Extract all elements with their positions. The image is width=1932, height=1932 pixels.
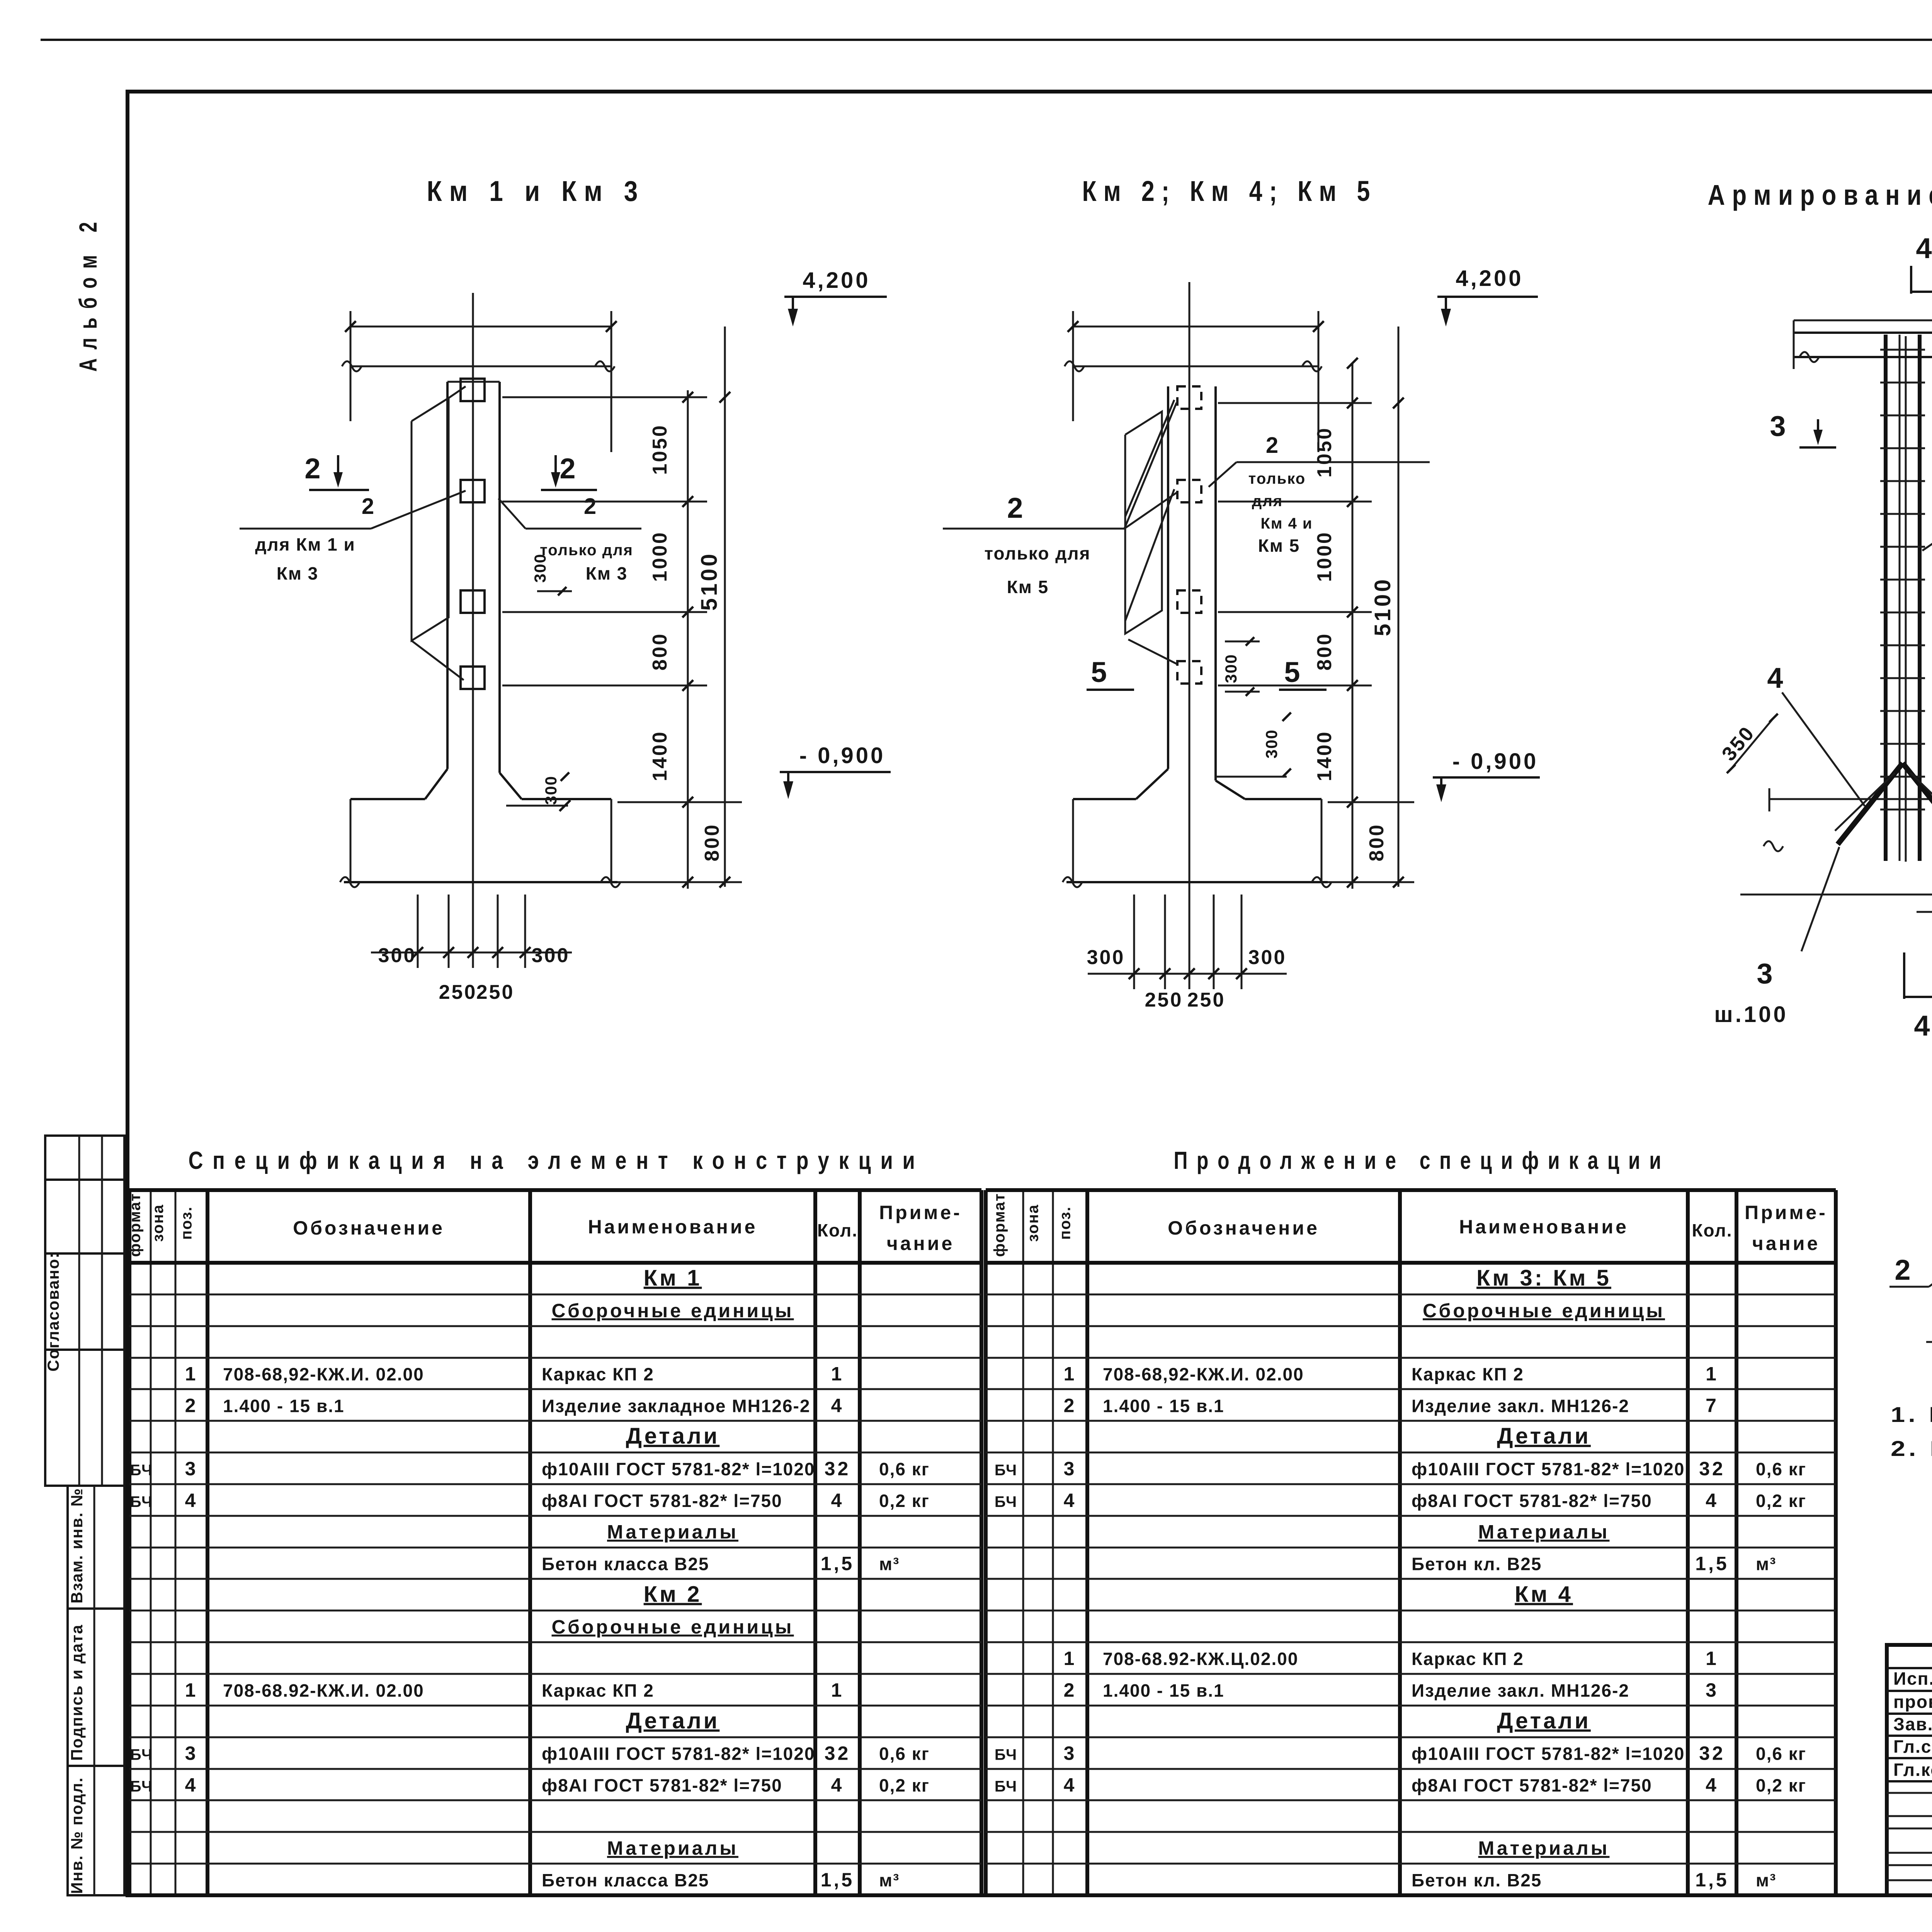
svg-text:4: 4 — [1064, 1490, 1077, 1511]
svg-text:1000: 1000 — [649, 531, 671, 582]
drawing2 slab line — [1073, 366, 1318, 367]
svg-text:БЧ: БЧ — [130, 1747, 153, 1764]
svg-text:БЧ: БЧ — [130, 1462, 153, 1479]
svg-text:4,200: 4,200 — [1456, 266, 1523, 291]
svg-text:1,5: 1,5 — [821, 1869, 855, 1891]
svg-text:Наименование: Наименование — [1459, 1216, 1629, 1238]
svg-text:Изделие закладное МН126-2: Изделие закладное МН126-2 — [542, 1396, 810, 1416]
svg-text:поз.: поз. — [1057, 1206, 1074, 1240]
svg-text:1050: 1050 — [649, 424, 671, 475]
svg-text:Материалы: Материалы — [607, 1837, 738, 1859]
svg-text:Км 1: Км 1 — [644, 1265, 702, 1291]
svg-text:БЧ: БЧ — [995, 1747, 1017, 1764]
svg-text:Согласовано:: Согласовано: — [44, 1252, 62, 1371]
svg-text:БЧ: БЧ — [130, 1778, 153, 1795]
drawing2 column centerline — [1189, 282, 1190, 904]
svg-text:0,6 кг: 0,6 кг — [879, 1744, 930, 1764]
svg-text:3: 3 — [185, 1458, 198, 1480]
svg-text:0,6 кг: 0,6 кг — [1756, 1459, 1806, 1479]
svg-text:350: 350 — [1718, 722, 1759, 765]
svg-text:ф8АI ГОСТ 5781-82* l=750: ф8АI ГОСТ 5781-82* l=750 — [1412, 1491, 1652, 1511]
drawing2 dimension chain — [1352, 363, 1354, 889]
svg-text:Наименование: Наименование — [588, 1216, 758, 1238]
svg-text:800: 800 — [701, 823, 723, 862]
svg-text:Спецификация на элемент кон: Спецификация на элемент конструкции — [189, 1146, 925, 1174]
staff/signature table — [1887, 1645, 1932, 1895]
svg-text:пров.: пров. — [1893, 1692, 1932, 1712]
drawing1 right extension line — [611, 311, 612, 452]
svg-text:- 0,900: - 0,900 — [799, 743, 886, 768]
drawing2 left extension — [1072, 311, 1074, 421]
approval stamp group (Согласовано) — [45, 1136, 124, 1486]
svg-text:БЧ: БЧ — [995, 1462, 1017, 1479]
svg-text:Км 4 и: Км 4 и — [1260, 515, 1313, 532]
svg-text:Детали: Детали — [626, 1708, 720, 1733]
svg-text:для Км 1 и: для Км 1 и — [255, 534, 355, 554]
svg-text:300: 300 — [542, 776, 560, 805]
svg-text:2: 2 — [1895, 1254, 1919, 1286]
svg-text:4,200: 4,200 — [803, 268, 870, 293]
svg-text:2: 2 — [1266, 433, 1281, 458]
svg-text:зона: зона — [1025, 1204, 1042, 1242]
svg-text:0,2 кг: 0,2 кг — [1756, 1491, 1806, 1511]
drawing1 total dim 5100 — [724, 327, 726, 887]
drawing1 slab line — [350, 366, 611, 367]
svg-text:Км 3: Км 3 — [277, 563, 318, 583]
svg-text:1: 1 — [831, 1363, 844, 1384]
svg-text:1,5: 1,5 — [1695, 1869, 1729, 1891]
svg-text:800: 800 — [1366, 823, 1388, 862]
drawing2 footing — [1136, 769, 1168, 799]
svg-text:Бетон класса В25: Бетон класса В25 — [542, 1554, 709, 1574]
svg-text:0,2 кг: 0,2 кг — [879, 1491, 930, 1511]
svg-text:БЧ: БЧ — [995, 1493, 1017, 1510]
svg-text:3: 3 — [185, 1743, 198, 1764]
svg-text:Каркас КП 2: Каркас КП 2 — [1412, 1649, 1524, 1669]
svg-text:Детали: Детали — [1497, 1423, 1591, 1449]
svg-text:ф8АI ГОСТ 5781-82* l=750: ф8АI ГОСТ 5781-82* l=750 — [542, 1776, 782, 1796]
leader to plate4 — [412, 641, 464, 680]
svg-text:32: 32 — [1699, 1458, 1725, 1480]
drawing2 dashed plate 3 — [1177, 590, 1201, 613]
svg-text:2: 2 — [362, 494, 376, 519]
svg-text:708-68.92-КЖ.Ц.02.00: 708-68.92-КЖ.Ц.02.00 — [1103, 1649, 1298, 1669]
drawing2 bottom dimensions — [1133, 895, 1135, 989]
drawing1 column centerline — [472, 293, 474, 904]
drawing2 cage outline — [1125, 412, 1162, 634]
top slab (left) — [1794, 332, 1932, 334]
svg-text:1.400 - 15 в.1: 1.400 - 15 в.1 — [223, 1396, 345, 1416]
stamp group (Взам.инв №/Подпись и дата/Инв № подл.) — [68, 1486, 124, 1895]
svg-text:Сборочные единицы: Сборочные единицы — [552, 1616, 794, 1638]
drawing2 column body — [1167, 386, 1169, 769]
svg-text:Сборочные единицы: Сборочные единицы — [552, 1300, 794, 1321]
svg-text:Исп.: Исп. — [1893, 1668, 1932, 1689]
svg-text:250: 250 — [439, 981, 477, 1003]
drawing1 embedded plate 2 — [461, 480, 485, 502]
svg-text:1: 1 — [1064, 1363, 1077, 1384]
dim 350 (left) — [1731, 718, 1774, 769]
svg-text:4: 4 — [831, 1395, 844, 1416]
svg-text:чание: чание — [887, 1233, 955, 1254]
svg-text:ф10АIII ГОСТ 5781-82* l=1020: ф10АIII ГОСТ 5781-82* l=1020 — [542, 1744, 815, 1764]
svg-text:2: 2 — [304, 452, 329, 485]
drawing1 embedded plate 1 — [461, 379, 485, 401]
svg-text:Детали: Детали — [1497, 1708, 1591, 1733]
svg-text:Каркас КП 2: Каркас КП 2 — [542, 1680, 654, 1701]
page border top — [41, 39, 1932, 41]
svg-text:1400: 1400 — [1313, 730, 1336, 781]
drawing1 footing 300 dim — [506, 805, 568, 807]
drawing1 dimension chain — [687, 390, 689, 889]
svg-text:формат: формат — [991, 1193, 1008, 1257]
svg-text:1: 1 — [185, 1363, 198, 1384]
svg-text:Обозначение: Обозначение — [293, 1217, 445, 1239]
svg-text:Кол.: Кол. — [817, 1220, 858, 1240]
svg-text:Гл.кон: Гл.кон — [1893, 1760, 1932, 1780]
svg-text:4: 4 — [1706, 1490, 1719, 1511]
svg-text:250: 250 — [1187, 989, 1226, 1011]
svg-text:Км 4: Км 4 — [1515, 1582, 1573, 1607]
svg-text:1. Ведомость расхода стали: 1. Ведомость расхода стали см. лист 19. — [1891, 1402, 1932, 1427]
svg-text:1,5: 1,5 — [821, 1553, 855, 1575]
svg-text:300: 300 — [532, 944, 570, 967]
drawing2 dashed plate 4 — [1177, 661, 1201, 684]
svg-text:4: 4 — [831, 1490, 844, 1511]
svg-text:Изделие закл. МН126-2: Изделие закл. МН126-2 — [1412, 1680, 1629, 1701]
svg-text:300: 300 — [1248, 946, 1287, 969]
svg-text:1000: 1000 — [1313, 531, 1336, 582]
drawing1 cage outline — [412, 398, 449, 641]
svg-text:чание: чание — [1752, 1233, 1820, 1254]
svg-text:Материалы: Материалы — [607, 1521, 738, 1543]
svg-text:300: 300 — [1222, 654, 1240, 683]
svg-text:2: 2 — [185, 1395, 198, 1416]
svg-text:7: 7 — [1706, 1395, 1719, 1416]
svg-text:4: 4 — [185, 1774, 198, 1796]
svg-text:1: 1 — [1706, 1648, 1719, 1669]
svg-text:Сборочные единицы: Сборочные единицы — [1423, 1300, 1665, 1321]
svg-text:708-68,92-КЖ.И. 02.00: 708-68,92-КЖ.И. 02.00 — [1103, 1364, 1304, 1384]
svg-text:Инв. № подл.: Инв. № подл. — [68, 1777, 86, 1894]
svg-text:3: 3 — [1064, 1743, 1077, 1764]
svg-text:ф8АI ГОСТ 5781-82* l=750: ф8АI ГОСТ 5781-82* l=750 — [1412, 1776, 1652, 1796]
svg-text:2. Рабочие швы при бетониров: 2. Рабочие швы при бетонировании колонн — [1891, 1436, 1932, 1461]
svg-text:формат: формат — [127, 1193, 144, 1257]
svg-text:Продолжение спецификации: Продолжение спецификации — [1174, 1146, 1670, 1174]
svg-text:Каркас КП 2: Каркас КП 2 — [542, 1364, 654, 1384]
svg-text:800: 800 — [649, 633, 671, 671]
drawing1 left extension line — [350, 311, 352, 421]
svg-text:БЧ: БЧ — [130, 1493, 153, 1510]
svg-text:Изделие закл. МН126-2: Изделие закл. МН126-2 — [1412, 1396, 1629, 1416]
svg-text:Бетон кл. В25: Бетон кл. В25 — [1412, 1554, 1542, 1574]
svg-text:Каркас КП 2: Каркас КП 2 — [1412, 1364, 1524, 1384]
drawing1 embedded plate 4 — [461, 667, 485, 689]
svg-text:только: только — [1248, 470, 1306, 487]
svg-text:300: 300 — [1262, 729, 1281, 759]
svg-text:Зав.гр: Зав.гр — [1893, 1714, 1932, 1734]
svg-text:2: 2 — [1064, 1395, 1077, 1416]
svg-text:2: 2 — [584, 494, 599, 519]
svg-text:Приме-: Приме- — [879, 1202, 962, 1223]
svg-text:поз.: поз. — [178, 1206, 195, 1240]
svg-text:4: 4 — [1914, 1010, 1932, 1042]
drawing2 dashed plate 2 — [1177, 480, 1201, 502]
svg-text:ф8АI ГОСТ 5781-82* l=750: ф8АI ГОСТ 5781-82* l=750 — [542, 1491, 782, 1511]
svg-text:Материалы: Материалы — [1478, 1521, 1610, 1543]
svg-text:2: 2 — [560, 452, 584, 485]
svg-text:зона: зона — [150, 1204, 167, 1242]
drawing1 embedded plate 3 — [461, 590, 485, 613]
svg-text:3: 3 — [1770, 410, 1794, 442]
svg-text:только для: только для — [985, 543, 1091, 563]
svg-text:Альбом 2: Альбом 2 — [74, 213, 102, 372]
svg-text:- 0,900: - 0,900 — [1452, 749, 1539, 774]
svg-text:м³: м³ — [879, 1870, 900, 1890]
svg-text:4: 4 — [831, 1774, 844, 1796]
svg-text:1: 1 — [185, 1679, 198, 1701]
drawing2 dashed plate 1 — [1177, 386, 1201, 409]
svg-text:0,6 кг: 0,6 кг — [879, 1459, 930, 1479]
svg-text:708-68,92-КЖ.И. 02.00: 708-68,92-КЖ.И. 02.00 — [223, 1364, 424, 1384]
svg-text:300: 300 — [378, 944, 417, 967]
drawing2 right extension — [1318, 311, 1320, 452]
svg-text:Бетон кл. В25: Бетон кл. В25 — [1412, 1870, 1542, 1890]
drawing1 footing — [425, 769, 447, 799]
svg-text:Км 5: Км 5 — [1007, 577, 1049, 597]
svg-text:Подпись и дата: Подпись и дата — [68, 1624, 86, 1760]
svg-text:Приме-: Приме- — [1745, 1202, 1828, 1223]
svg-text:3: 3 — [1706, 1679, 1719, 1701]
svg-text:5: 5 — [1284, 656, 1308, 688]
svg-text:32: 32 — [825, 1743, 851, 1764]
svg-text:4: 4 — [1916, 232, 1932, 264]
svg-text:2: 2 — [1064, 1679, 1077, 1701]
svg-text:Км 2: Км 2 — [644, 1582, 702, 1607]
svg-text:1.400 - 15 в.1: 1.400 - 15 в.1 — [1103, 1680, 1225, 1701]
svg-text:3: 3 — [1757, 957, 1781, 990]
drawing2 top dim line — [1073, 326, 1318, 328]
svg-text:Км 3: Км 5: Км 3: Км 5 — [1476, 1265, 1611, 1291]
svg-text:1.400 - 15 в.1: 1.400 - 15 в.1 — [1103, 1396, 1225, 1416]
svg-text:1: 1 — [1706, 1363, 1719, 1384]
svg-text:1050: 1050 — [1313, 427, 1336, 478]
svg-text:ф10АIII ГОСТ 5781-82* l=1020: ф10АIII ГОСТ 5781-82* l=1020 — [1412, 1744, 1685, 1764]
svg-text:32: 32 — [825, 1458, 851, 1480]
svg-text:м³: м³ — [1756, 1870, 1776, 1890]
drawing1 bottom dimensions — [417, 895, 419, 968]
svg-text:1: 1 — [1064, 1648, 1077, 1669]
svg-text:Материалы: Материалы — [1478, 1837, 1610, 1859]
svg-text:Кол.: Кол. — [1692, 1220, 1732, 1240]
svg-text:4: 4 — [1767, 662, 1791, 694]
svg-text:1,5: 1,5 — [1695, 1553, 1729, 1575]
svg-text:ф10АIII ГОСТ 5781-82* l=1020: ф10АIII ГОСТ 5781-82* l=1020 — [1412, 1459, 1685, 1479]
svg-text:4: 4 — [1706, 1774, 1719, 1796]
svg-text:5100: 5100 — [1370, 577, 1395, 636]
svg-text:250: 250 — [476, 981, 515, 1003]
svg-text:Детали: Детали — [626, 1423, 720, 1449]
svg-text:300: 300 — [1087, 946, 1125, 969]
svg-text:Бетон класса В25: Бетон класса В25 — [542, 1870, 709, 1890]
section mark 4 bottom — [1903, 952, 1905, 999]
svg-text:Км 5: Км 5 — [1258, 536, 1300, 556]
svg-text:Км 3: Км 3 — [586, 563, 628, 583]
leader to plate1 — [449, 386, 466, 398]
svg-text:Км 1 и Км 3: Км 1 и Км 3 — [427, 175, 645, 207]
drawing1 top dimension line — [350, 326, 611, 328]
svg-text:800: 800 — [1313, 633, 1336, 671]
svg-text:Взам. инв. №: Взам. инв. № — [68, 1488, 86, 1604]
svg-text:м³: м³ — [1756, 1554, 1776, 1574]
svg-text:0,6 кг: 0,6 кг — [1756, 1744, 1806, 1764]
footing anchors (left) — [1769, 798, 1932, 800]
svg-text:4: 4 — [1064, 1774, 1077, 1796]
svg-text:БЧ: БЧ — [995, 1778, 1017, 1795]
svg-text:2: 2 — [1007, 492, 1031, 524]
svg-text:ф10АIII ГОСТ 5781-82* l=1020: ф10АIII ГОСТ 5781-82* l=1020 — [542, 1459, 815, 1479]
svg-text:708-68.92-КЖ.И. 02.00: 708-68.92-КЖ.И. 02.00 — [223, 1680, 424, 1701]
svg-text:4: 4 — [185, 1490, 198, 1511]
drawing1 column body — [446, 382, 449, 769]
svg-text:300: 300 — [531, 553, 549, 583]
svg-text:только для: только для — [540, 542, 633, 559]
svg-text:1400: 1400 — [649, 730, 671, 781]
svg-text:0,2 кг: 0,2 кг — [1756, 1776, 1806, 1796]
svg-text:1: 1 — [831, 1679, 844, 1701]
svg-text:5100: 5100 — [697, 551, 722, 611]
svg-text:м³: м³ — [879, 1554, 900, 1574]
svg-text:5: 5 — [1091, 656, 1115, 688]
reinforcement cage elevation (left) — [1884, 335, 1888, 861]
svg-text:3: 3 — [1064, 1458, 1077, 1480]
svg-text:Армирование Км1...Км5: Армирование Км1...Км5 — [1708, 179, 1932, 211]
svg-text:0,2 кг: 0,2 кг — [879, 1776, 930, 1796]
svg-text:Гл.сп.: Гл.сп. — [1893, 1736, 1932, 1757]
svg-text:ш.100: ш.100 — [1714, 1002, 1788, 1027]
svg-text:Обозначение: Обозначение — [1168, 1217, 1320, 1239]
svg-text:250: 250 — [1145, 989, 1183, 1011]
drawing2 total dim 5100 — [1398, 327, 1400, 887]
svg-text:Км 2; Км 4; Км 5: Км 2; Км 4; Км 5 — [1082, 175, 1377, 207]
svg-text:32: 32 — [1699, 1743, 1725, 1764]
